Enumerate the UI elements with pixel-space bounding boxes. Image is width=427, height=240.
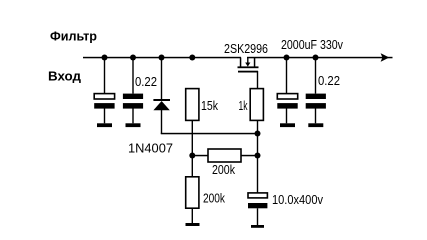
resistor R1 15k — [186, 89, 199, 121]
wire C3 top lead — [286, 58, 287, 94]
wire gate net horizontal — [161, 133, 258, 135]
svg-text:1k: 1k — [239, 98, 248, 113]
wire C2 top lead — [132, 58, 133, 94]
wire C3 bottom lead — [286, 109, 287, 124]
wire R3 net right — [241, 155, 258, 157]
resistor R4 200k vertical — [186, 177, 199, 208]
svg-text:200k: 200k — [212, 162, 235, 177]
ground C3 — [280, 123, 295, 127]
wire C4 top lead — [315, 58, 316, 94]
transistor Q1 drain stub — [240, 58, 242, 68]
transistor Q1 gate bar — [238, 71, 258, 73]
capacitor C5 10uF top plate — [248, 193, 267, 198]
svg-text:0.22: 0.22 — [135, 74, 157, 89]
transistor Q1 channel bar — [238, 66, 259, 68]
svg-text:15k: 15k — [201, 98, 218, 113]
node dot R2-C5 — [255, 153, 261, 159]
diode D1 triangle — [153, 101, 169, 110]
svg-text:200k: 200k — [203, 190, 225, 205]
wire R4 top lead — [192, 156, 193, 177]
resistor R3 200k horizontal — [208, 149, 241, 162]
capacitor C2 0.22 top plate — [123, 94, 143, 99]
ground C1 — [97, 123, 112, 127]
wire D1 bottom lead — [161, 110, 162, 134]
wire R3 net left — [192, 155, 208, 157]
svg-text:Фильтр: Фильтр — [50, 29, 97, 44]
capacitor C1 bottom plate — [94, 103, 114, 109]
node dot A4 — [189, 55, 195, 61]
svg-text:0.22: 0.22 — [318, 73, 340, 88]
capacitor C2 bottom plate — [123, 103, 143, 109]
diode D1 cathode bar — [153, 99, 170, 101]
transistor Q1 source stub — [254, 58, 256, 68]
resistor R2 1k — [250, 89, 263, 121]
wire C2 bottom lead — [132, 109, 133, 124]
wire C1 top lead — [104, 58, 105, 94]
wire top rail right segment — [247, 57, 393, 59]
capacitor C4 0.22 top plate — [306, 94, 326, 99]
wire C5 bottom lead — [257, 208, 258, 225]
capacitor C3 2000uF top plate — [277, 94, 297, 99]
svg-text:1N4007: 1N4007 — [128, 141, 173, 156]
wire C1 bottom lead — [104, 109, 105, 124]
capacitor C3 bottom plate — [277, 103, 297, 109]
capacitor C5 bottom plate — [248, 203, 267, 208]
node dot gate net — [255, 131, 261, 137]
wire C4 bottom lead — [315, 109, 316, 124]
node dot B1 — [284, 55, 290, 61]
capacitor C1 electrolytic top plate — [94, 94, 114, 99]
ground C4 — [308, 123, 323, 127]
ground C5 — [251, 225, 264, 228]
wire D1 top lead — [161, 58, 162, 100]
transistor Q1 bulk arrow shaft — [247, 58, 248, 64]
node dot R1-R3 — [189, 153, 195, 159]
arrowhead output — [381, 53, 390, 62]
svg-text:2SK2996: 2SK2996 — [224, 41, 268, 56]
wire R1 bottom lead — [192, 120, 193, 155]
capacitor C4 bottom plate — [306, 103, 326, 109]
svg-text:Вход: Вход — [48, 69, 82, 84]
node dot A3 — [159, 55, 165, 61]
wire gate lead to R2 — [257, 71, 258, 89]
svg-text:2000uF 330v: 2000uF 330v — [281, 37, 343, 52]
node dot B2 — [313, 55, 319, 61]
wire R2 bottom lead — [257, 120, 258, 192]
node dot A1 — [102, 55, 108, 61]
svg-text:10.0x400v: 10.0x400v — [272, 192, 323, 207]
ground R4 — [186, 223, 200, 226]
wire top rail left segment — [83, 57, 241, 59]
wire R4 bottom lead — [192, 208, 193, 223]
node dot A2 — [130, 55, 136, 61]
ground C2 — [126, 123, 141, 127]
transistor Q1 bulk arrowhead — [245, 63, 250, 67]
